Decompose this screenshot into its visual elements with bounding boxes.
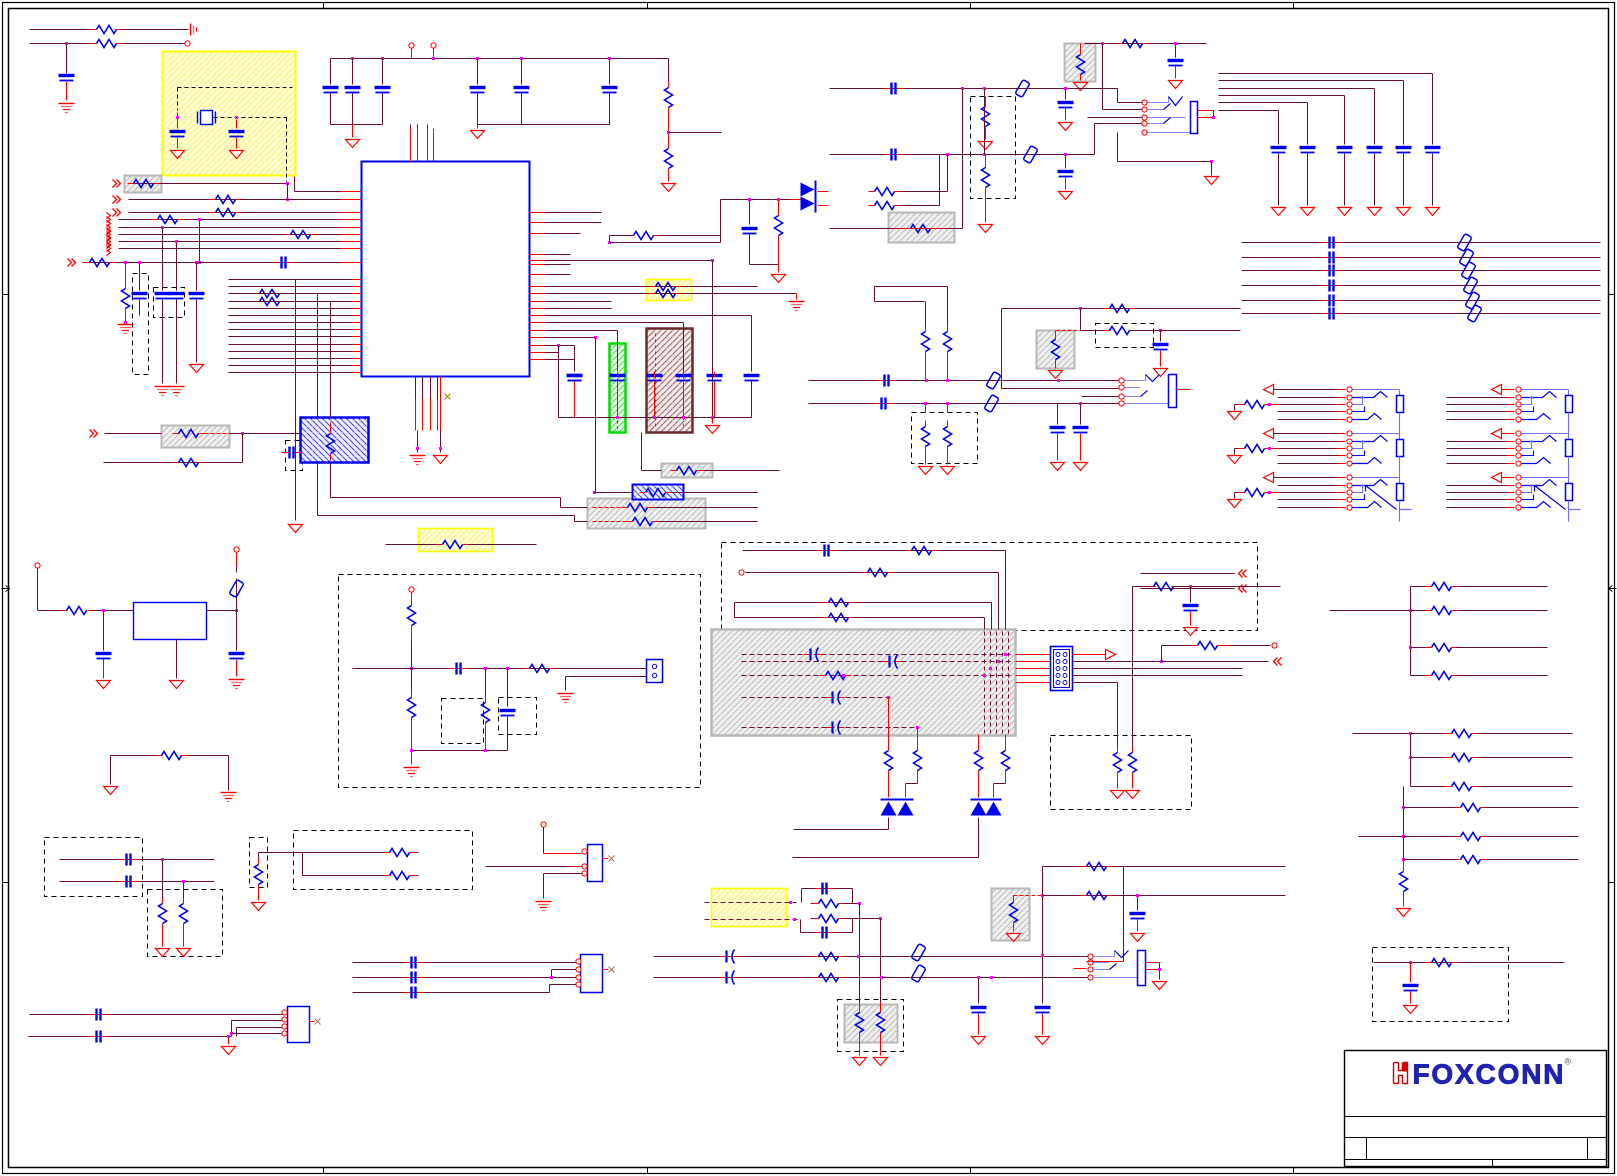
svg-text:FOXCONN: FOXCONN [1413,1059,1563,1090]
svg-text:®: ® [1565,1057,1572,1067]
